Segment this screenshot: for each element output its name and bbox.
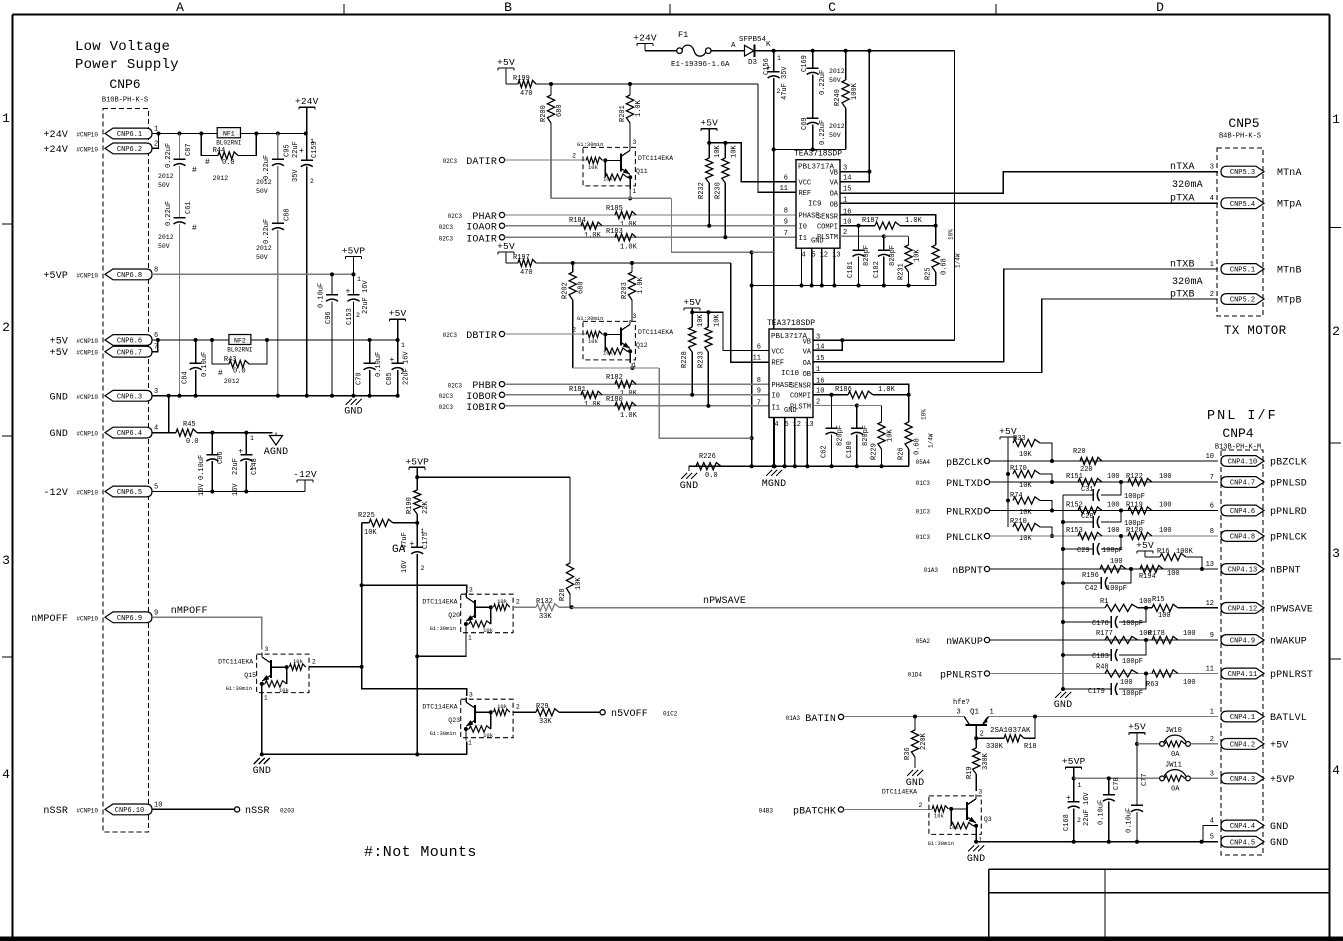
svg-text:B10B-PH-K-S: B10B-PH-K-S bbox=[102, 97, 148, 105]
svg-text:C31: C31 bbox=[1081, 486, 1094, 494]
wire +5VP line bbox=[152, 272, 356, 276]
svg-text:2012: 2012 bbox=[256, 245, 272, 252]
ground MGND bbox=[762, 470, 787, 490]
svg-text:1.0K: 1.0K bbox=[905, 217, 923, 225]
resistor R152 bbox=[1066, 502, 1120, 515]
svg-text:CNP5.4: CNP5.4 bbox=[1230, 201, 1255, 209]
connector pin CNP6.2 bbox=[43, 140, 158, 156]
svg-text:CNP6.4: CNP6.4 bbox=[117, 430, 142, 438]
terminal pBATCHK bbox=[759, 807, 844, 818]
svg-text:#CNP10: #CNP10 bbox=[76, 490, 98, 497]
wire mgnd drop a bbox=[750, 252, 754, 468]
power flag +5V a bbox=[389, 308, 407, 340]
svg-text:2: 2 bbox=[777, 88, 781, 95]
svg-text:R233: R233 bbox=[697, 351, 705, 368]
title block bbox=[989, 869, 1330, 938]
svg-text:DATIR: DATIR bbox=[466, 157, 497, 168]
svg-text:nSSR: nSSR bbox=[43, 806, 68, 817]
resistor R153 bbox=[1066, 527, 1120, 540]
resistor R233 bbox=[697, 312, 721, 406]
capacitor C70 bbox=[356, 340, 384, 398]
svg-text:R25: R25 bbox=[925, 267, 933, 280]
analog ground AGND bbox=[264, 433, 289, 458]
wire IC10 PLSTM bbox=[813, 404, 859, 408]
svg-text:E1-19396-1.6A: E1-19396-1.6A bbox=[671, 61, 730, 69]
svg-text:100: 100 bbox=[1159, 473, 1172, 481]
capacitor C96 bbox=[318, 274, 339, 397]
svg-text:11: 11 bbox=[753, 354, 761, 362]
wire R197 rail bbox=[536, 261, 731, 265]
op-amp IC9 bbox=[780, 150, 852, 260]
svg-text:#CNP10: #CNP10 bbox=[76, 615, 98, 622]
svg-text:R184: R184 bbox=[569, 217, 586, 225]
svg-text:R183: R183 bbox=[606, 228, 623, 236]
wire cap gnd rail bbox=[1061, 495, 1065, 691]
svg-text:CNP5.1: CNP5.1 bbox=[1230, 267, 1255, 275]
svg-text:2: 2 bbox=[1332, 324, 1340, 339]
svg-text:+: + bbox=[390, 356, 395, 365]
power flag +5VP b bbox=[405, 456, 429, 479]
svg-text:C: C bbox=[828, 0, 836, 15]
wire +5V pullup rail bbox=[1006, 443, 1010, 527]
svg-text:1: 1 bbox=[250, 435, 254, 442]
svg-text:22uF 16V: 22uF 16V bbox=[362, 280, 370, 314]
svg-text:0.0: 0.0 bbox=[233, 368, 246, 376]
svg-text:IOBOR: IOBOR bbox=[466, 392, 497, 403]
svg-text:3: 3 bbox=[469, 692, 473, 699]
svg-text:+: + bbox=[238, 448, 243, 457]
svg-text:CNP6.6: CNP6.6 bbox=[117, 338, 142, 346]
wire PHAR row bbox=[505, 214, 796, 216]
terminal PHAR bbox=[448, 212, 505, 223]
svg-text:C78: C78 bbox=[1113, 777, 1121, 790]
svg-text:#CNP10: #CNP10 bbox=[76, 146, 98, 153]
resistor R200 bbox=[540, 84, 564, 198]
svg-text:R177: R177 bbox=[1096, 630, 1113, 638]
svg-text:3: 3 bbox=[265, 646, 269, 653]
svg-text:2: 2 bbox=[356, 312, 360, 319]
svg-text:DTC114EKA: DTC114EKA bbox=[638, 155, 673, 162]
svg-text:CNP6.10: CNP6.10 bbox=[115, 807, 144, 815]
wire Q20 collector feed bbox=[362, 585, 467, 593]
svg-text:47uF 35V: 47uF 35V bbox=[781, 66, 789, 100]
svg-text:VB: VB bbox=[803, 339, 811, 347]
power flag -12V bbox=[293, 469, 317, 492]
capacitor C179 bbox=[1063, 674, 1146, 699]
wire GND rail bbox=[152, 394, 398, 398]
svg-text:BL02RNI: BL02RNI bbox=[216, 140, 241, 147]
svg-text:R28: R28 bbox=[559, 588, 567, 601]
svg-text:F1: F1 bbox=[678, 30, 688, 40]
connector CNP5 dashed box bbox=[1217, 148, 1263, 316]
wire IC10 COMPI bbox=[813, 393, 834, 397]
svg-text:A: A bbox=[176, 0, 184, 15]
svg-text:PNLCLK: PNLCLK bbox=[946, 533, 983, 544]
svg-text:#:Not Mounts: #:Not Mounts bbox=[364, 844, 477, 861]
svg-text:33K: 33K bbox=[539, 718, 552, 726]
wire nmpoff node vertical bbox=[360, 523, 467, 696]
svg-text:2: 2 bbox=[1210, 291, 1214, 299]
svg-text:C42: C42 bbox=[1085, 585, 1098, 593]
svg-text:JW10: JW10 bbox=[1165, 727, 1182, 735]
wire IC10 OB to CNP5.2 bbox=[813, 299, 1218, 373]
label 320mA a bbox=[1172, 180, 1203, 191]
svg-text:2: 2 bbox=[2, 320, 10, 335]
svg-text:REF: REF bbox=[799, 190, 812, 198]
connector CNP6 title bbox=[102, 77, 148, 105]
wire VCC feed A bbox=[709, 141, 796, 182]
svg-text:2: 2 bbox=[980, 731, 984, 739]
wire IC9 COMPI bbox=[840, 224, 861, 228]
resistor R183 bbox=[606, 228, 638, 252]
svg-text:5: 5 bbox=[154, 484, 158, 492]
svg-text:0.22uF: 0.22uF bbox=[819, 70, 827, 95]
svg-text:pBZCLK: pBZCLK bbox=[946, 458, 983, 469]
svg-text:C77: C77 bbox=[1141, 773, 1149, 786]
wire CNP6.4 link bbox=[152, 396, 176, 433]
connector pin CNP4.5 bbox=[1210, 834, 1289, 850]
svg-text:NF1: NF1 bbox=[223, 131, 235, 138]
svg-text:3: 3 bbox=[154, 388, 158, 396]
svg-text:C87: C87 bbox=[185, 143, 193, 156]
resistor R186 bbox=[832, 386, 909, 398]
svg-text:6: 6 bbox=[1210, 503, 1214, 511]
svg-text:#: # bbox=[192, 166, 197, 175]
svg-text:+5V: +5V bbox=[497, 241, 515, 252]
svg-text:C156: C156 bbox=[763, 58, 771, 75]
svg-text:DTC114EKA: DTC114EKA bbox=[422, 704, 457, 711]
svg-text:2: 2 bbox=[250, 465, 254, 472]
resistor R28 bbox=[559, 477, 583, 607]
connector pin CNP4.6 bbox=[1210, 503, 1307, 519]
svg-text:#CNP10: #CNP10 bbox=[76, 431, 98, 438]
svg-text:9: 9 bbox=[784, 218, 788, 226]
svg-text:R240: R240 bbox=[834, 89, 842, 106]
svg-text:100: 100 bbox=[1183, 630, 1196, 638]
svg-text:02C3: 02C3 bbox=[439, 236, 454, 243]
wire IC9 OB to CNP5.4 bbox=[840, 202, 1218, 204]
svg-text:G1:30min: G1:30min bbox=[577, 141, 603, 148]
svg-text:1: 1 bbox=[1210, 709, 1214, 717]
svg-text:I1: I1 bbox=[772, 404, 780, 412]
svg-text:4: 4 bbox=[1210, 195, 1214, 203]
svg-text:0.10uF: 0.10uF bbox=[198, 455, 206, 480]
resistor R120 bbox=[1126, 527, 1172, 540]
svg-text:10k: 10k bbox=[279, 687, 290, 694]
resistor R228 bbox=[681, 312, 705, 395]
wire REF feed B bbox=[731, 263, 769, 362]
svg-text:#CNP10: #CNP10 bbox=[76, 394, 98, 401]
transistor Q20 bbox=[422, 587, 520, 642]
terminal nSSR bbox=[235, 806, 295, 817]
svg-text:50V: 50V bbox=[829, 77, 841, 84]
svg-text:C70: C70 bbox=[356, 372, 364, 385]
svg-text:CNP4: CNP4 bbox=[1222, 426, 1253, 441]
terminal pPNLRST bbox=[908, 671, 990, 682]
connector pin CNP6.7 bbox=[50, 344, 159, 360]
svg-text:+24V: +24V bbox=[43, 145, 68, 156]
svg-text:3: 3 bbox=[1210, 770, 1214, 778]
svg-text:Q15: Q15 bbox=[244, 672, 256, 679]
svg-text:1.0K: 1.0K bbox=[584, 232, 602, 240]
svg-text:02C3: 02C3 bbox=[448, 213, 463, 220]
svg-text:0.10uF: 0.10uF bbox=[1126, 808, 1134, 833]
svg-text:0.10uF: 0.10uF bbox=[375, 352, 383, 377]
svg-text:+5V: +5V bbox=[683, 297, 701, 308]
wire IC9 PLSTM bbox=[840, 234, 886, 238]
resistor R231 bbox=[884, 236, 922, 285]
svg-text:0.22uF: 0.22uF bbox=[263, 219, 271, 244]
svg-text:DTC114EKA: DTC114EKA bbox=[638, 329, 673, 336]
svg-text:100: 100 bbox=[1183, 679, 1196, 687]
svg-text:2012: 2012 bbox=[158, 173, 174, 180]
svg-text:#CNP10: #CNP10 bbox=[76, 807, 98, 814]
wire IOBIR row bbox=[505, 404, 769, 408]
svg-text:CNP5.2: CNP5.2 bbox=[1230, 297, 1255, 305]
transistor Q11 bbox=[572, 139, 673, 195]
svg-text:1.0K: 1.0K bbox=[584, 401, 602, 409]
wire PNLRXD row bbox=[990, 509, 1218, 513]
svg-text:13: 13 bbox=[832, 252, 840, 260]
svg-text:pPNLRST: pPNLRST bbox=[1270, 670, 1313, 681]
resistor R36 bbox=[904, 717, 928, 769]
capacitor C62 bbox=[821, 395, 845, 466]
svg-text:OB: OB bbox=[803, 371, 811, 379]
svg-text:CNP6.7: CNP6.7 bbox=[117, 349, 142, 357]
svg-text:CNP4.8: CNP4.8 bbox=[1230, 534, 1255, 542]
resistor R1 bbox=[1100, 598, 1152, 612]
svg-text:-12V: -12V bbox=[293, 469, 317, 480]
svg-text:D: D bbox=[1156, 0, 1164, 15]
svg-text:10k: 10k bbox=[603, 350, 614, 357]
svg-text:I1: I1 bbox=[799, 235, 807, 243]
svg-text:10k: 10k bbox=[949, 824, 960, 831]
svg-text:CNP4.1: CNP4.1 bbox=[1230, 714, 1255, 722]
svg-text:10K: 10K bbox=[1019, 482, 1032, 490]
svg-text:GND: GND bbox=[1270, 822, 1288, 833]
svg-text:IOBIR: IOBIR bbox=[466, 403, 497, 414]
ground GND r226 bbox=[680, 473, 698, 492]
wire +5V line bbox=[152, 338, 400, 342]
wire VB riser bbox=[954, 51, 956, 341]
wire bottom gnd rail bbox=[976, 840, 1218, 844]
ground GND caps bbox=[1054, 692, 1072, 711]
svg-text:DBTIR: DBTIR bbox=[466, 331, 497, 342]
svg-text:1/4W: 1/4W bbox=[928, 433, 935, 448]
svg-text:n5VOFF: n5VOFF bbox=[611, 709, 648, 720]
svg-text:2012: 2012 bbox=[224, 378, 240, 385]
svg-text:2: 2 bbox=[1077, 817, 1081, 824]
resistor R232 bbox=[698, 143, 722, 226]
connector CNP4 dashed box bbox=[1221, 450, 1263, 855]
wire R199 rail bbox=[536, 82, 758, 86]
svg-text:+24V: +24V bbox=[43, 130, 68, 141]
svg-text:GND: GND bbox=[906, 778, 924, 789]
connector pin CNP4.13 bbox=[1206, 561, 1301, 577]
svg-text:nTXB: nTXB bbox=[1170, 260, 1195, 271]
svg-text:CNP4.4: CNP4.4 bbox=[1230, 823, 1255, 831]
connector pin CNP4.1 bbox=[1210, 709, 1307, 725]
svg-text:100: 100 bbox=[1159, 527, 1172, 535]
resistor R25 bbox=[925, 226, 962, 286]
svg-text:I0: I0 bbox=[799, 223, 807, 231]
wire MGND rail bbox=[689, 464, 909, 468]
svg-text:R33: R33 bbox=[1013, 435, 1026, 443]
svg-text:R15: R15 bbox=[1152, 596, 1165, 604]
svg-text:8: 8 bbox=[784, 208, 788, 216]
svg-text:R36: R36 bbox=[904, 747, 912, 760]
wire PNLCLK row bbox=[990, 534, 1218, 538]
svg-text:OA: OA bbox=[830, 191, 839, 199]
svg-text:G1:30min: G1:30min bbox=[928, 840, 954, 847]
svg-text:4: 4 bbox=[1332, 763, 1340, 778]
svg-text:IOAOR: IOAOR bbox=[466, 223, 497, 234]
svg-text:4: 4 bbox=[1210, 818, 1214, 826]
resistor R45 bbox=[176, 421, 273, 446]
resistor R177 bbox=[1096, 630, 1152, 644]
svg-text:1.0K: 1.0K bbox=[620, 412, 638, 420]
svg-text:3: 3 bbox=[1332, 546, 1340, 561]
wire BATIN to BATLVL bbox=[844, 715, 1218, 719]
ferrite bead NF2 bbox=[227, 335, 252, 354]
resistor R184 bbox=[569, 217, 602, 240]
svg-text:BATIN: BATIN bbox=[805, 714, 836, 725]
svg-text:3: 3 bbox=[633, 313, 637, 320]
svg-text:100K: 100K bbox=[851, 82, 859, 100]
capacitor C95 bbox=[256, 134, 292, 196]
svg-text:1.0K: 1.0K bbox=[878, 386, 896, 394]
svg-text:820pF: 820pF bbox=[837, 425, 845, 446]
svg-text:pPNLSD: pPNLSD bbox=[1270, 479, 1307, 490]
svg-text:10k: 10k bbox=[497, 598, 508, 605]
svg-text:VCC: VCC bbox=[772, 349, 785, 357]
svg-text:C95: C95 bbox=[284, 144, 292, 157]
svg-text:10: 10 bbox=[1206, 453, 1214, 461]
resistor R197 bbox=[513, 254, 536, 277]
svg-text:#CNP10: #CNP10 bbox=[76, 338, 98, 345]
svg-text:1: 1 bbox=[777, 55, 781, 62]
capacitor C159 bbox=[292, 134, 319, 396]
svg-text:820pF: 820pF bbox=[863, 245, 871, 266]
svg-text:50V: 50V bbox=[158, 243, 170, 250]
svg-text:SENSR: SENSR bbox=[817, 213, 839, 221]
svg-text:VA: VA bbox=[803, 349, 812, 357]
svg-text:R186: R186 bbox=[835, 386, 852, 394]
svg-text:CNP4.2: CNP4.2 bbox=[1230, 742, 1255, 750]
svg-text:R229: R229 bbox=[871, 443, 879, 460]
svg-text:CNP4.7: CNP4.7 bbox=[1230, 480, 1255, 488]
wire pBATCHK bbox=[844, 809, 933, 811]
svg-text:Q20: Q20 bbox=[448, 612, 460, 619]
svg-text:VCC: VCC bbox=[799, 179, 812, 187]
svg-text:GND: GND bbox=[344, 407, 362, 418]
svg-text:22K: 22K bbox=[422, 501, 430, 514]
svg-text:IC10: IC10 bbox=[781, 370, 800, 378]
svg-text:680: 680 bbox=[578, 281, 586, 294]
svg-text:10k: 10k bbox=[603, 176, 614, 183]
svg-text:8: 8 bbox=[154, 266, 158, 274]
svg-text:SFPB54: SFPB54 bbox=[739, 36, 767, 44]
svg-text:22uF: 22uF bbox=[232, 458, 240, 475]
svg-text:10k: 10k bbox=[588, 164, 599, 171]
capacitor C178 bbox=[1063, 608, 1146, 628]
terminal IOBOR bbox=[439, 392, 505, 403]
capacitor C69 bbox=[801, 117, 845, 151]
wire IC9 gnd rail bbox=[752, 284, 936, 288]
resistor R74 bbox=[1010, 492, 1054, 517]
svg-text:MTpB: MTpB bbox=[1277, 296, 1302, 307]
terminal nWAKUP bbox=[916, 637, 990, 648]
svg-text:CNP4.10: CNP4.10 bbox=[1228, 459, 1257, 467]
svg-text:330K: 330K bbox=[982, 752, 990, 770]
svg-text:JW11: JW11 bbox=[1165, 761, 1182, 769]
resistor R190 bbox=[406, 477, 430, 525]
wire IC9 OA to CNP5.3 bbox=[840, 172, 1218, 194]
svg-text:MTnB: MTnB bbox=[1277, 266, 1302, 277]
wire IOAIR row bbox=[505, 235, 796, 239]
svg-text:0.0: 0.0 bbox=[705, 472, 718, 480]
wire pPNLRST row bbox=[990, 672, 1218, 676]
svg-text:02C3: 02C3 bbox=[443, 158, 458, 165]
capacitor C169 bbox=[801, 51, 845, 118]
terminal DBTIR bbox=[443, 331, 505, 342]
svg-text:02C3: 02C3 bbox=[443, 332, 458, 339]
wire Q15 pin2 to node bbox=[309, 665, 364, 669]
svg-text:G1:30min: G1:30min bbox=[577, 315, 603, 322]
svg-text:10k: 10k bbox=[934, 812, 945, 819]
power flag +5V q11 bbox=[497, 57, 518, 84]
svg-text:1/4W: 1/4W bbox=[955, 253, 962, 268]
terminal PNLTXD bbox=[916, 479, 990, 490]
svg-text:nPWSAVE: nPWSAVE bbox=[703, 596, 746, 607]
svg-text:02C3: 02C3 bbox=[439, 404, 454, 411]
wire fuse to diode bbox=[711, 42, 744, 51]
connector pin CNP5.4 bbox=[1170, 194, 1302, 211]
wire PNLTXD row bbox=[990, 480, 1218, 484]
svg-text:R199: R199 bbox=[513, 75, 530, 83]
svg-text:CNP6.8: CNP6.8 bbox=[117, 272, 142, 280]
power flag +5V c77 bbox=[1128, 722, 1146, 746]
svg-text:PHBR: PHBR bbox=[472, 381, 497, 392]
terminal pBZCLK bbox=[916, 458, 990, 469]
wire pBZCLK row bbox=[990, 460, 1218, 462]
svg-text:05A2: 05A2 bbox=[916, 638, 931, 645]
capacitor C181 bbox=[847, 226, 871, 286]
capacitor C77 bbox=[1126, 744, 1150, 842]
svg-text:G1:30min: G1:30min bbox=[430, 730, 456, 737]
svg-text:+24V: +24V bbox=[633, 33, 657, 44]
wire PHBR row bbox=[505, 383, 769, 385]
connector pin CNP4.2 bbox=[1210, 736, 1289, 752]
resistor R29 bbox=[536, 703, 600, 726]
svg-text:+5VP: +5VP bbox=[43, 271, 68, 282]
svg-text:R180: R180 bbox=[606, 396, 623, 404]
svg-text:33K: 33K bbox=[539, 613, 552, 621]
terminal IOAOR bbox=[439, 223, 505, 234]
capacitor C148 bbox=[232, 433, 259, 496]
svg-text:PHAR: PHAR bbox=[472, 212, 497, 223]
svg-text:680: 680 bbox=[556, 104, 564, 117]
capacitor C29 bbox=[1063, 536, 1123, 555]
svg-text:2: 2 bbox=[572, 327, 576, 334]
svg-text:pPNLRD: pPNLRD bbox=[1270, 507, 1307, 518]
resistor R119 bbox=[1126, 502, 1172, 515]
svg-text:+5V: +5V bbox=[50, 337, 68, 348]
wire crossrail link bbox=[752, 251, 774, 253]
resistor R229 bbox=[857, 406, 895, 467]
svg-text:PNL I/F: PNL I/F bbox=[1207, 409, 1278, 424]
resistor R122 bbox=[1126, 473, 1172, 486]
